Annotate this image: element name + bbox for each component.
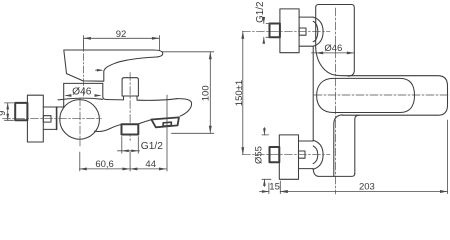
dim 150 line bbox=[242, 31, 244, 154]
svg-text:9: 9 bbox=[0, 111, 7, 116]
wire dim 92 line bbox=[83, 37, 159, 39]
connector top edge bbox=[43, 106, 64, 108]
cartridge housing top edge bbox=[64, 82, 103, 84]
arrows 100 bbox=[209, 52, 212, 60]
extension to dim 60,6 bbox=[79, 152, 81, 171]
dim Ø46 right view line bbox=[312, 52, 355, 54]
lower column left edge with fillet bbox=[334, 115, 343, 177]
handle lever outline bbox=[64, 50, 163, 81]
top connector inner rect bbox=[299, 28, 306, 35]
spout tip outline bbox=[177, 99, 192, 117]
aerator thick bbox=[163, 122, 171, 126]
dim G1/2 line with inside arrows bbox=[118, 150, 140, 152]
connector right cap bbox=[56, 107, 58, 129]
lower column right edge with fillet bbox=[355, 115, 360, 173]
svg-text:Ø46: Ø46 bbox=[324, 43, 342, 54]
cartridge housing left side bbox=[63, 83, 65, 107]
svg-text:60,6: 60,6 bbox=[95, 159, 114, 170]
dim 15/203 extensions bbox=[268, 183, 270, 194]
bottom connector piece bbox=[299, 140, 314, 142]
arrows 60,6 bbox=[79, 167, 87, 170]
spout stadium upper surface bbox=[317, 78, 415, 112]
dim Ø55 line outside arrows bbox=[263, 128, 265, 135]
rear face line bbox=[312, 46, 314, 140]
node arrow 92 left bbox=[83, 37, 91, 40]
svg-text:G1/2: G1/2 bbox=[255, 2, 266, 23]
extension to dims bbox=[129, 152, 131, 171]
connector bottom edge bbox=[43, 128, 56, 130]
cartridge housing right side bbox=[103, 83, 106, 99]
spout centerline bbox=[314, 94, 449, 96]
dim G1/2 extensions bbox=[121, 137, 123, 154]
shower connector thick bbox=[122, 124, 139, 134]
bottom escutcheon bbox=[279, 135, 298, 179]
top thread thick rect bbox=[270, 24, 280, 38]
top axis centerline bbox=[242, 30, 330, 32]
top connector piece bbox=[299, 16, 313, 18]
svg-text:15: 15 bbox=[269, 181, 280, 192]
dim Ø46 arrows left view bbox=[66, 95, 71, 97]
svg-text:100: 100 bbox=[200, 85, 211, 101]
dim 9 line with inside arrows bbox=[7, 103, 9, 120]
extension 44 right (outlet center) bbox=[166, 95, 168, 171]
body column top bbox=[316, 5, 355, 77]
diverter knob bbox=[122, 78, 138, 96]
leader arrow at handle neck bbox=[96, 69, 102, 71]
dim Ø55 ext bbox=[262, 134, 269, 136]
axis centerline cartridge bbox=[82, 41, 84, 96]
dim 100 bottom extension bbox=[172, 132, 214, 134]
top escutcheon bbox=[280, 9, 299, 53]
bottom nut thick rect bbox=[270, 147, 280, 162]
spout outer outline (merges into column left edge at top-left) bbox=[316, 48, 448, 115]
spout outlet housing thick bbox=[151, 117, 179, 127]
dim 15 line outside arrows bbox=[260, 191, 269, 193]
dim 100 top extension bbox=[162, 51, 214, 53]
body top edge bbox=[58, 98, 103, 100]
svg-text:92: 92 bbox=[116, 29, 127, 40]
dim 203 line bbox=[280, 191, 447, 193]
dim G1/2 right view ext bbox=[266, 23, 271, 25]
svg-text:Ø46: Ø46 bbox=[72, 86, 92, 97]
circle horizontal centerline bbox=[3, 118, 102, 120]
bottom bell inner arc bbox=[313, 146, 318, 164]
dim 60,6 44 line bbox=[79, 168, 166, 170]
valve body circle bbox=[60, 100, 100, 140]
circle vertical centerline bbox=[79, 98, 81, 146]
top bell outer arc bbox=[313, 17, 323, 46]
bottom connector inner rect bbox=[299, 151, 306, 158]
wire dim 92 extension left bbox=[82, 36, 84, 50]
svg-text:203: 203 bbox=[359, 181, 375, 192]
knob neck bbox=[123, 96, 125, 99]
svg-text:Ø55: Ø55 bbox=[253, 146, 264, 164]
bottom bell outer arc bbox=[313, 140, 323, 169]
column centerline bbox=[335, 8, 337, 194]
top bell inner arc bbox=[313, 21, 318, 42]
bottom axis centerline bbox=[242, 154, 330, 156]
wall escutcheon bbox=[27, 95, 43, 142]
connector inner rect bbox=[43, 116, 51, 122]
wire dim 92 extension right bbox=[158, 36, 160, 51]
node arrow 92 right bbox=[152, 37, 160, 40]
knob / shower axis centerline bbox=[129, 73, 131, 141]
dim 100 vertical line bbox=[209, 52, 211, 134]
body bottom edge bbox=[313, 169, 355, 176]
body bottom contour bbox=[95, 125, 122, 132]
dim G1/2 right view line outside arrows bbox=[263, 17, 265, 23]
svg-text:G1/2: G1/2 bbox=[141, 141, 163, 152]
svg-text:150±1: 150±1 bbox=[234, 80, 245, 106]
wall nut thick square bbox=[15, 103, 27, 120]
svg-text:44: 44 bbox=[145, 159, 156, 170]
dim 9 extension lines bbox=[5, 102, 14, 104]
